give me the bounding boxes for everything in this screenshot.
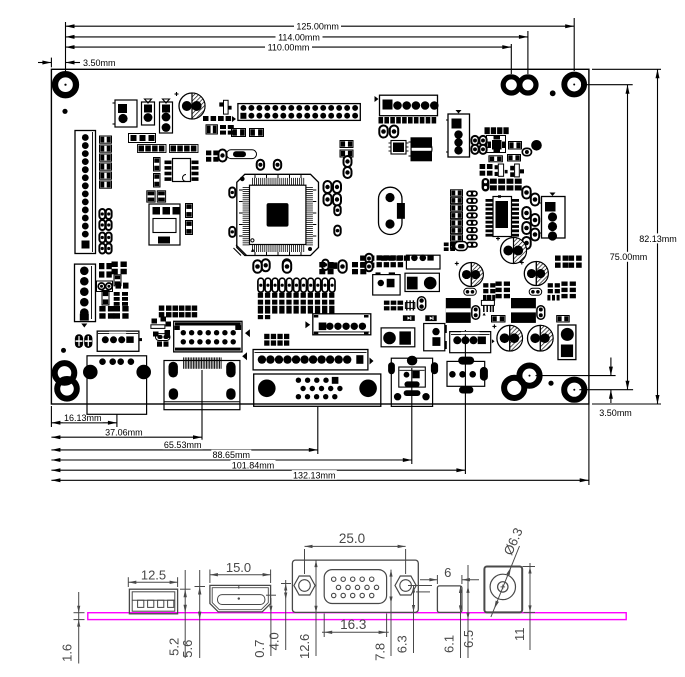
transistor Q2 pads bbox=[156, 334, 171, 341]
pads below C6 bbox=[529, 288, 542, 295]
svg-text:12.5: 12.5 bbox=[141, 568, 166, 583]
resistor vertical D bbox=[116, 283, 122, 289]
mounting hole bottom left 2 bbox=[57, 379, 77, 399]
capacitor pads right of QFP top bbox=[344, 156, 352, 167]
svg-text:0.7: 0.7 bbox=[252, 640, 267, 658]
connector HDMI profile bbox=[210, 585, 271, 612]
svg-text:3.50mm: 3.50mm bbox=[83, 58, 116, 68]
svg-text:125.00mm: 125.00mm bbox=[296, 22, 339, 32]
resistor network RN1 bbox=[129, 134, 156, 143]
capacitor C4 electrolytic bbox=[501, 238, 527, 264]
dimension 125.00mm bbox=[66, 25, 575, 27]
dimension 16.13mm bbox=[51, 422, 117, 424]
resistor rows above IDC bbox=[159, 306, 165, 311]
dimension 12.6 line bbox=[315, 560, 317, 656]
svg-text:1.6: 1.6 bbox=[60, 644, 75, 662]
ssop U6 bbox=[493, 197, 512, 237]
connector CN9 bbox=[450, 332, 491, 353]
svg-text:75.00mm: 75.00mm bbox=[610, 252, 648, 262]
pad cluster below QFN bbox=[480, 164, 486, 169]
mounting hole bottom right 2 bbox=[504, 378, 524, 398]
fiducial dot bottom right bbox=[548, 381, 553, 386]
pad grid 2x4 center bbox=[264, 334, 269, 339]
dimension 65.53mm bbox=[51, 449, 317, 451]
connector DC barrel jack profile bbox=[484, 567, 522, 613]
svg-text:65.53mm: 65.53mm bbox=[164, 440, 202, 450]
resistor column right bbox=[451, 190, 463, 196]
crystal Y1 bbox=[379, 187, 403, 234]
connector CN7 bbox=[97, 331, 139, 351]
capacitor pads vertical pair A bbox=[418, 297, 426, 310]
pad grid F bbox=[483, 283, 488, 287]
connector CN2 bbox=[115, 100, 137, 127]
wire extension lines right holes bbox=[510, 44, 512, 74]
connector DC square profile bbox=[437, 586, 462, 613]
processor U3 QFP bbox=[237, 174, 319, 255]
pad grid A bbox=[112, 262, 118, 268]
board outline bbox=[51, 69, 589, 404]
svg-text:88.65mm: 88.65mm bbox=[213, 450, 251, 460]
vga pin holes bbox=[332, 577, 336, 581]
diode D1 bbox=[142, 102, 155, 125]
mounting hole bottom right 3 bbox=[564, 380, 584, 400]
connector J2 IDC14 bbox=[174, 321, 242, 352]
dimension 3.50mm bottom right bbox=[536, 375, 616, 377]
wire extension lines bottom connectors bbox=[116, 414, 118, 427]
capacitor C8 electrolytic bbox=[528, 325, 554, 351]
dimension 114.00mm bbox=[66, 36, 528, 38]
transistor Q4 sot89 bbox=[483, 295, 485, 312]
fiducial dot top left bbox=[62, 109, 67, 114]
dimension 37.06mm bbox=[51, 436, 202, 438]
capacitor pads vertical pair B bbox=[472, 306, 480, 319]
resistor row R7 bbox=[139, 146, 145, 152]
resistor pair below header bbox=[232, 129, 246, 137]
mounting hole top right 3 bbox=[564, 75, 584, 95]
svg-text:4.0: 4.0 bbox=[267, 632, 282, 650]
transistor Q3 sot23 bbox=[405, 303, 414, 309]
regulator U2 box bbox=[149, 204, 180, 245]
svg-text:114.00mm: 114.00mm bbox=[278, 32, 320, 42]
connector VGA profile bbox=[292, 560, 418, 612]
box with pads M bbox=[381, 328, 415, 347]
dimension 16.3 VGA bbox=[323, 614, 325, 638]
dimension 0.7 line bbox=[270, 598, 272, 656]
svg-text:7.8: 7.8 bbox=[372, 643, 387, 661]
capacitor column ovals bbox=[466, 191, 478, 197]
pcb edge strip magenta bbox=[88, 613, 626, 620]
diode D3 black bbox=[403, 315, 415, 321]
capacitor C1 electrolytic bbox=[179, 93, 205, 119]
svg-text:6.3: 6.3 bbox=[395, 635, 410, 653]
dimension 3.50mm top left bbox=[50, 58, 52, 68]
diode D4 black bbox=[425, 315, 436, 321]
pads below QFP bbox=[262, 259, 270, 271]
resistor row R8 bbox=[171, 146, 177, 152]
dimension 11 line bbox=[529, 563, 531, 650]
pad cluster right of diodes bbox=[203, 116, 209, 121]
transformer T1 bbox=[411, 139, 432, 160]
pad grid stripe 2x3 bbox=[384, 301, 390, 305]
resistor R9 bbox=[509, 142, 522, 150]
fiducial dot mid left bbox=[61, 348, 66, 353]
pad cluster above jumper bbox=[206, 151, 211, 156]
mounting hole top right 1 bbox=[503, 77, 519, 93]
pads box top right bbox=[406, 255, 440, 269]
dimension 6.3 line bbox=[413, 586, 415, 654]
screw nut right bbox=[395, 576, 416, 595]
dimension 6.1 line bbox=[460, 586, 462, 658]
resistor row H bbox=[444, 243, 449, 247]
jumper JP1 bbox=[227, 150, 257, 159]
capacitor pads pair 2 bbox=[471, 136, 478, 145]
svg-text:15.0: 15.0 bbox=[226, 560, 251, 575]
resistor row J bbox=[492, 316, 506, 323]
test point dot bbox=[531, 140, 542, 151]
svg-text:11: 11 bbox=[512, 628, 527, 642]
dimension 6.5 line bbox=[467, 565, 469, 658]
box with pads N bbox=[558, 325, 576, 360]
svg-text:12.6: 12.6 bbox=[297, 634, 312, 659]
connector S-video bbox=[391, 358, 432, 406]
screw nut left bbox=[294, 576, 315, 595]
dimension 132.13mm bbox=[51, 479, 588, 481]
capacitor pads CN3 side bbox=[379, 126, 387, 138]
jumper strip left of IDC bbox=[151, 325, 165, 329]
resistor row top bbox=[485, 127, 490, 134]
dimension 88.65mm bbox=[51, 459, 411, 461]
pads pair B bbox=[97, 281, 113, 292]
connector CN6 bbox=[75, 264, 96, 322]
dimension 7.8 line bbox=[390, 570, 392, 656]
dimension 6 square bbox=[436, 575, 438, 584]
capacitor pads pair near top box bbox=[365, 254, 372, 264]
connector HDMI bbox=[164, 361, 240, 410]
capacitor pads I bbox=[537, 306, 545, 319]
regulator U7 vertical box bbox=[424, 324, 445, 351]
connector CN4 bbox=[448, 114, 470, 157]
svg-text:16.3: 16.3 bbox=[340, 617, 366, 632]
dimension 75.00mm bbox=[581, 84, 633, 86]
dimension 101.84mm bbox=[51, 469, 465, 471]
connector CN8 bbox=[313, 314, 371, 335]
inductor L2 bbox=[511, 298, 536, 323]
diode D2 bbox=[160, 102, 173, 133]
resistor pack ovals row bbox=[258, 278, 264, 292]
resistor pair mid bbox=[340, 141, 353, 148]
svg-text:25.0: 25.0 bbox=[339, 531, 365, 546]
resistor vertical C bbox=[102, 291, 109, 306]
wire extension line left hole bbox=[65, 22, 67, 72]
op-amp U1 SOIC8 bbox=[173, 159, 191, 182]
pads left of QFP bbox=[229, 188, 235, 198]
relay K2 box bbox=[405, 273, 439, 291]
capacitor column ovals 2 bbox=[522, 187, 530, 199]
svg-text:101.84mm: 101.84mm bbox=[232, 460, 275, 470]
dimension 25.0 VGA bbox=[304, 549, 306, 574]
connector J3 13pin bbox=[253, 350, 368, 370]
wire extension line bottom left bbox=[50, 406, 52, 427]
ic U4 small bbox=[391, 141, 406, 155]
mounting hole top right 2 bbox=[520, 77, 536, 93]
capacitor C5 electrolytic bbox=[459, 263, 483, 287]
connector USB A bbox=[87, 356, 147, 415]
svg-text:82.13mm: 82.13mm bbox=[639, 234, 677, 244]
resistor row below CN3 bbox=[379, 117, 384, 124]
pads row above ovals bbox=[253, 260, 261, 273]
svg-text:3.50mm: 3.50mm bbox=[599, 408, 632, 418]
connector VGA J4 bbox=[254, 374, 381, 406]
svg-text:37.06mm: 37.06mm bbox=[105, 427, 143, 437]
leader diameter 6.3 bbox=[491, 546, 520, 617]
dimension 82.13mm bbox=[592, 68, 661, 70]
resistor column R1-R6 bbox=[100, 136, 112, 143]
dimension 5.2 line bbox=[184, 570, 186, 658]
svg-text:6.1: 6.1 bbox=[442, 635, 457, 653]
fiducial dot top right bbox=[550, 90, 556, 96]
pad grid G bbox=[548, 283, 553, 287]
connector USB profile bbox=[129, 589, 177, 614]
pads right of QFP bbox=[324, 181, 332, 193]
pad grids top right corner area bbox=[555, 256, 561, 261]
mounting hole bottom left 1 bbox=[55, 363, 75, 383]
connector DC jack bbox=[447, 361, 485, 386]
inductor L1 bbox=[446, 298, 471, 323]
capacitor pads above QFP bbox=[257, 160, 264, 170]
dimension 1.6 line bbox=[78, 592, 80, 664]
connector CN5 right edge bbox=[542, 197, 566, 239]
connector CN3 top right bbox=[380, 95, 438, 116]
transistor Q1 bbox=[147, 191, 155, 202]
pads below C5 bbox=[464, 288, 477, 295]
capacitor pads pair E bbox=[75, 334, 83, 348]
svg-text:5.6: 5.6 bbox=[180, 640, 195, 658]
dimension 15.0 HDMI width bbox=[209, 570, 211, 584]
svg-text:110.00mm: 110.00mm bbox=[268, 43, 310, 53]
vga d-sub shell bbox=[324, 570, 386, 604]
dimension 12.5 USB width bbox=[127, 577, 129, 587]
relay K1 box bbox=[373, 275, 400, 295]
capacitor C7 electrolytic bbox=[497, 325, 523, 351]
capacitor C6 electrolytic bbox=[524, 262, 548, 286]
dimension 5.6 line bbox=[199, 570, 201, 658]
capacitor pad group bbox=[99, 209, 105, 219]
dimension 110.00mm bbox=[66, 46, 512, 48]
svg-text:132.13mm: 132.13mm bbox=[293, 471, 336, 481]
mounting hole bottom right 1 bbox=[519, 366, 539, 386]
capacitor C3a bbox=[186, 204, 193, 218]
connector CN1 tall left bbox=[75, 131, 96, 254]
mounting hole top left bbox=[55, 74, 76, 95]
capacitor pads row mid bbox=[522, 148, 531, 155]
resistor pack pads row 1 bbox=[258, 293, 263, 298]
capacitor C2a bbox=[154, 158, 161, 172]
chip U5 QFN bbox=[487, 136, 506, 153]
dimension 4.0 line bbox=[285, 580, 287, 650]
svg-text:6.5: 6.5 bbox=[461, 630, 476, 648]
resistor pack pads row 2 bbox=[258, 306, 263, 314]
svg-text:6: 6 bbox=[444, 565, 451, 580]
pin header J1 2x17 bbox=[238, 104, 360, 121]
